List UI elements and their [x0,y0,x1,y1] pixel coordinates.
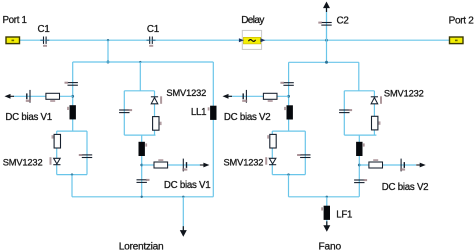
capacitor (lower-right loop) [300,155,310,158]
resistor (DC bias V2 series R, middle) [369,162,383,168]
varactor diode SMV1232 (upper-middle) [151,97,158,104]
ground arrow above C2 [323,2,330,9]
capacitor (upper-right loop) [339,110,349,113]
DC source V2 (battery, middle) [401,159,404,172]
wire: lower-right loop to rail [288,175,290,197]
capacitor C1 (left) [40,37,49,44]
port P1 [6,37,20,44]
inductor (left branch bias choke) [70,105,76,119]
node: lower-right loop bottom tap [287,173,289,175]
wire: upper-middle loop top [124,90,154,92]
capacitor C1 (second) [147,37,156,44]
varactor diode SMV1232 (lower-left) [53,158,60,164]
resistor (DC bias V1 series R, left) [46,93,60,99]
wire: lower-right loop top [272,130,305,132]
wire: upper-middle loop bottom [124,134,155,136]
wire: lower-left loop left vertical [56,131,58,175]
wire: upper-right loop left vertical [343,91,345,135]
wire: lower-right loop right vertical [304,131,306,175]
wire: left subcircuit top horizontal [73,61,214,63]
wire: right subcircuit bottom rail [289,196,360,198]
node: rail / LF1 stub [326,196,328,198]
wire: drop from bus at x=108 [107,40,109,62]
svg-text:Port 1: Port 1 [3,15,27,26]
DC source V1 (battery, left) [27,90,30,103]
wire: ground stub (Lorentzian) [182,197,184,230]
svg-text:DC bias V1: DC bias V1 [164,180,211,191]
inductor LL1 [210,106,216,120]
wire: DC bias V1 feed (left) [13,95,73,97]
wire: C2 branch vertical [326,8,328,40]
inductor (right middle bias choke) [356,142,362,156]
svg-text:C2: C2 [337,16,349,27]
wire: lower-left loop top [57,130,87,132]
node: top horizontal / drop junction (left) [107,61,110,64]
DC bias V1 terminal arrow (middle) [203,163,209,168]
wire: LL1 branch vertical [212,62,214,197]
svg-text:SMV1232: SMV1232 [166,88,206,98]
resistor (DC bias V2 series R, left) [263,93,277,99]
capacitor (right middle to rail) [354,180,364,183]
inductor (right-left branch bias choke) [287,105,293,119]
wire: left branch vertical upper [72,62,74,131]
wire: upper-middle loop left vertical [123,91,125,135]
node: DC bias V2 tap (middle) [358,164,361,167]
svg-text:SMV1232: SMV1232 [3,157,43,167]
delay output pin arrow [260,38,265,42]
svg-text:DC bias V1: DC bias V1 [5,112,52,123]
capacitor (upper-middle loop) [119,110,129,113]
resistor (lower-left loop) [54,134,60,148]
wire: upper-right loop right vertical [373,91,375,135]
node: middle feed tap (left) [139,61,141,63]
DC bias V2 terminal arrow (middle) [420,163,426,168]
svg-text:Lorentzian: Lorentzian [119,241,164,252]
wire: lower-right loop bottom [272,174,305,176]
node: DC bias V1 tap (middle) [140,164,143,167]
capacitor (middle branch to rail) [137,180,147,183]
node: lower-left loop bottom tap [71,173,73,175]
node: rail / middle branch junction (left) [141,196,143,198]
DC bias V2 terminal arrow (left) [223,94,229,99]
DC bias V1 terminal arrow (left) [5,94,11,99]
varactor diode SMV1232 (lower-right) [269,158,276,164]
svg-text:Delay: Delay [241,15,264,26]
resistor (upper-middle loop) [153,117,159,131]
node: DC bias V1 tap (left) [71,95,74,98]
wire: middle branch lower vertical [141,135,143,197]
DC source V2 (battery, left) [243,90,246,103]
ground arrow (Fano) [323,225,330,232]
node: bus drop to left subcircuit [107,39,109,41]
delay input pin arrow [239,38,244,42]
capacitor (right-left branch DC block) [283,83,293,86]
wire: LF1 ground stub [326,197,328,226]
node: rail / ground stub (left) [182,196,184,198]
wire: lower-left loop to rail [71,175,73,197]
capacitor (lower-left loop) [82,155,92,158]
wire: middle feed from top horizontal [139,62,141,91]
node: DC bias V2 tap (left) [287,95,290,98]
wire: lower-left loop bottom [57,174,87,176]
resistor (upper-right loop) [372,116,378,130]
svg-text:DC bias V2: DC bias V2 [224,112,271,123]
wire: main bus Port1 to Port2 [20,39,450,41]
delay element DELAY1 [242,30,261,49]
capacitor (left branch DC block) [68,83,78,86]
inductor LF1 [324,206,330,220]
svg-text:Port 2: Port 2 [449,16,474,27]
capacitor C2 [321,23,331,26]
wire: DC bias V2 feed (left) [229,95,289,97]
wire: DC bias V1 feed (middle) [142,164,200,166]
svg-text:Fano: Fano [319,241,342,252]
resistor (lower-right loop) [270,134,276,148]
wire: left subcircuit bottom rail [72,196,213,198]
svg-text:SMV1232: SMV1232 [224,157,264,167]
wire: upper-right loop bottom [344,134,376,136]
wire: right-left branch vertical upper [288,62,290,131]
wire: lower-right loop left vertical [271,131,273,175]
port P2 [450,37,464,44]
wire: drop from bus at x=326.5 [326,40,328,62]
wire: right middle feed vertical [358,62,360,91]
node: top horizontal / drop junction (right) [325,61,328,64]
varactor diode SMV1232 (upper-right) [371,97,378,104]
ground arrow (Lorentzian) [180,230,187,237]
resistor (DC bias V1 series R, middle) [154,162,168,168]
wire: lower-left loop right vertical [86,131,88,175]
node: bus / C2 junction [325,39,328,42]
wire: DC bias V2 feed (middle) [359,164,416,166]
inductor (middle branch bias choke) [139,142,145,156]
DC source V1 (battery, middle) [183,159,186,172]
svg-text:DC bias V2: DC bias V2 [382,182,429,193]
svg-text:C1: C1 [147,24,159,35]
svg-text:C1: C1 [38,24,50,35]
svg-text:SMV1232: SMV1232 [384,89,424,99]
wire: right middle lower vertical [358,135,360,197]
svg-text:LF1: LF1 [336,210,352,221]
svg-text:LL1: LL1 [191,107,206,118]
wire: upper-middle loop right vertical [154,91,156,135]
wire: right subcircuit top horizontal [289,61,359,63]
wire: upper-right loop top [344,90,374,92]
